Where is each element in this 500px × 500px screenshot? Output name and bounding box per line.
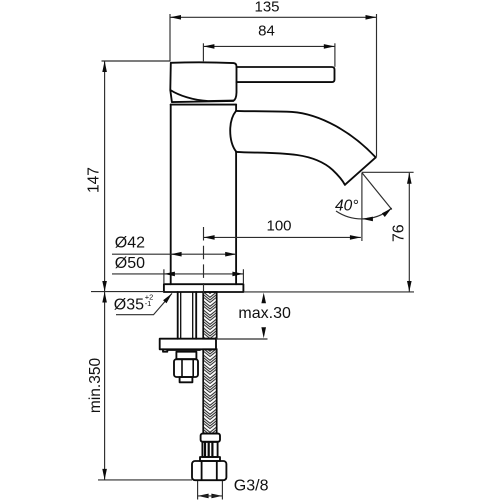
svg-text:135: 135: [254, 0, 279, 15]
hose collar: [201, 434, 220, 442]
hose nut facet lines: [202, 461, 217, 480]
svg-text:max.30: max.30: [238, 305, 291, 322]
ext lines G3/8: [198, 481, 223, 500]
bracket tab: [163, 349, 200, 351]
svg-text:min.350: min.350: [87, 358, 104, 414]
dim line 135: [170, 16, 377, 18]
arrow 100 left: [204, 235, 215, 240]
lever handle: [237, 67, 335, 82]
ext line 84 left: [202, 43, 204, 61]
dim line 76: [408, 173, 410, 292]
braided hose lower segment: [203, 349, 217, 433]
arrow min.350 top: [102, 292, 107, 303]
svg-text:Ø35: Ø35: [114, 296, 144, 313]
svg-text:84: 84: [258, 22, 275, 39]
leader diameter 35: [116, 293, 172, 314]
svg-text:76: 76: [390, 224, 407, 242]
svg-text:147: 147: [86, 167, 103, 193]
stud end below nut: [180, 377, 193, 382]
dim line 147: [104, 61, 106, 292]
svg-text:40°: 40°: [335, 197, 358, 214]
arrow 84 right: [324, 44, 335, 49]
arrow min.350 bottom: [102, 469, 107, 480]
arrow diameter42 right: [225, 252, 236, 257]
arrow 100 right: [350, 235, 361, 240]
arrow 40deg at ray: [382, 208, 392, 217]
G3/8 dim line & ext lines: [198, 481, 223, 500]
ext lines diameter 50: [164, 269, 244, 284]
mounting bracket: [160, 339, 216, 350]
arrow 84 left: [203, 44, 214, 49]
ref line hose end (min.350): [98, 479, 192, 481]
vertical ref from spout tip: [361, 173, 363, 241]
base plate (escutcheon): [164, 284, 244, 292]
svg-text:-1: -1: [145, 299, 152, 308]
body top rim: [171, 104, 236, 106]
ref line top of faucet (147): [102, 60, 171, 62]
arrow G38 right: [211, 494, 222, 499]
arrow 76 top: [407, 173, 412, 184]
arrow 76 bottom: [407, 281, 412, 292]
hose crimp ribs: [205, 443, 212, 457]
body right side upper: [235, 105, 237, 111]
ext line 135 left: [169, 14, 171, 61]
hose crimp section: [202, 442, 217, 457]
arrow 147 bottom: [102, 281, 107, 292]
threaded shank outer right: [195, 292, 197, 339]
arrow 40deg at vertical: [362, 217, 373, 222]
arrow 147 top: [102, 61, 107, 72]
spout bottom edge: [236, 152, 345, 185]
svg-text:100: 100: [266, 218, 291, 235]
spout end face: [345, 157, 376, 184]
body left side: [170, 105, 172, 285]
handle knob (cartridge cover): [170, 62, 236, 102]
40 degree ray: [362, 173, 392, 210]
ext line 135 right (down to spout tip): [376, 14, 378, 157]
40 degree arc: [336, 208, 392, 219]
arrow 135 right: [366, 15, 377, 20]
dim line diameter 50: [112, 273, 243, 275]
hose washer band: [200, 457, 220, 461]
arrow max30 down: [261, 327, 266, 338]
body right side lower: [235, 152, 237, 285]
svg-text:Ø50: Ø50: [115, 255, 145, 272]
spout-body intersection curve: [230, 111, 236, 152]
dim line 84: [203, 45, 334, 47]
svg-text:G3/8: G3/8: [234, 477, 269, 494]
braided hose upper segment: [203, 292, 217, 434]
dim line diameter 42: [112, 253, 236, 255]
spout top edge: [236, 111, 376, 157]
dim line 100: [204, 236, 361, 238]
handle skirt slant line: [170, 90, 233, 101]
threaded shank outer left: [177, 292, 179, 339]
hose nut G3/8: [192, 461, 226, 480]
svg-text:Ø42: Ø42: [115, 235, 145, 252]
max.30 lower ref line: [216, 338, 267, 340]
clamp nut: [174, 359, 198, 377]
ext line 84 right: [334, 43, 336, 67]
thread inner lines of shank: [181, 292, 193, 339]
arrow diameter42 left: [171, 252, 182, 257]
arrow diameter50 left: [164, 272, 175, 277]
arrow G38 left: [198, 494, 209, 499]
arrow diameter50 right: [232, 272, 243, 277]
dim line min.350: [104, 292, 106, 480]
horizontal ref from spout tip: [362, 171, 414, 173]
centerline of body (dash-dot): [203, 227, 205, 294]
arrow leader diameter35: [163, 293, 172, 303]
deck ref line left: [91, 291, 164, 293]
arrow 135 left: [170, 15, 181, 20]
deck ref line right: [244, 291, 414, 293]
clamp washer: [176, 352, 196, 360]
clamp nut facet lines: [182, 359, 193, 377]
dim line G3/8: [198, 495, 223, 497]
arrow max30 up: [261, 293, 266, 304]
